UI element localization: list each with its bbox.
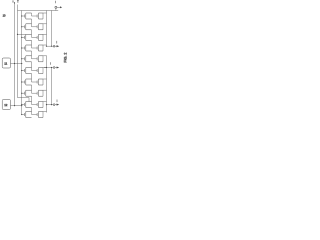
node output junction 16	[44, 67, 53, 69]
wire interstage row 10	[32, 112, 38, 115]
transistor Q5a	[24, 56, 31, 62]
wire chain link rows 8-9	[31, 96, 33, 101]
node gate stub row 1	[22, 15, 25, 17]
transistor Q2a	[24, 24, 31, 30]
output arrow 16	[55, 67, 57, 69]
wire chain link rows 4-5	[31, 51, 33, 56]
wire block 12 output	[11, 105, 22, 107]
wire interstage row 7	[32, 79, 38, 82]
svg-text:FIG. 2: FIG. 2	[63, 53, 67, 63]
wire chain link rows 9-10	[31, 108, 33, 112]
transistor Q3a	[24, 34, 31, 40]
transistor Q3b	[37, 34, 43, 40]
wire chain link rows 5-6	[31, 62, 33, 68]
wire chain link rows 1-2	[31, 19, 33, 24]
node gate stub row 8	[22, 92, 25, 94]
gate bus (third vertical bus)	[21, 11, 23, 115]
wire interstage row 3	[32, 34, 38, 37]
wire interstage row 9	[32, 102, 38, 105]
wire interstage row 6	[32, 68, 38, 71]
drain collector line (upper segment)	[46, 11, 48, 47]
transistor Q1a	[24, 13, 31, 19]
transistor Q4a	[24, 45, 31, 51]
node gate stub row 9	[22, 104, 25, 106]
drain collector line (lower segment)	[46, 56, 48, 113]
input terminal 13 (top right)	[55, 8, 57, 10]
label 2	[17, 0, 19, 2]
terminal circle 17	[53, 104, 55, 106]
svg-text:12: 12	[4, 103, 8, 107]
label 1	[12, 0, 14, 2]
label 13	[55, 1, 57, 4]
wire interstage row 2	[32, 24, 38, 27]
svg-text:10: 10	[3, 13, 6, 17]
wire output link row 5	[43, 56, 47, 62]
node gate stub row 10	[22, 114, 25, 116]
transistor Q2b	[37, 24, 43, 30]
wire chain link rows 6-7	[31, 74, 33, 80]
transistor Q5b	[37, 56, 43, 62]
generator block 11	[2, 58, 10, 68]
transistor Q10a	[24, 112, 31, 118]
transistor Q1b	[37, 13, 43, 19]
svg-text:11: 11	[4, 62, 7, 66]
transistor Q9a	[24, 102, 31, 108]
wire output link row 8	[43, 90, 47, 96]
clock line phi-2 (second vertical bus)	[17, 5, 19, 98]
transistor Q9b	[37, 102, 43, 108]
node output junction 17	[47, 104, 54, 106]
wire phi-2 bus bottom jog to row 9	[18, 98, 30, 102]
wire output link row 7	[43, 79, 47, 85]
wire chain link rows 2-3	[31, 30, 33, 35]
output arrow 17	[55, 104, 57, 106]
node gate stub row 3	[22, 36, 25, 38]
label 17	[56, 100, 58, 103]
wire output link row 4	[43, 45, 47, 51]
wire output link row 3	[43, 34, 47, 40]
node output junction 15	[47, 45, 54, 47]
node gate stub row 6	[22, 70, 25, 72]
label 15	[56, 41, 58, 44]
wire chain link rows 3-4	[31, 40, 33, 45]
transistor Q8b	[37, 90, 43, 96]
transistor Q4b	[37, 45, 43, 51]
terminal circle 16	[53, 67, 55, 69]
generator block 12	[2, 100, 10, 110]
transistor Q6b	[37, 68, 43, 74]
transistor Q7a	[24, 79, 31, 85]
node gate stub row 5	[22, 58, 25, 60]
label 16	[49, 62, 51, 65]
wire interstage row 8	[32, 90, 38, 93]
wire row 3 drain to phi-2 bus	[18, 33, 26, 35]
wire chain link rows 7-8	[31, 85, 33, 90]
node gate stub row 4	[22, 47, 25, 49]
wire interstage row 1	[32, 13, 38, 16]
transistor Q7b	[37, 79, 43, 85]
wire output link row 6	[43, 68, 47, 74]
transistor Q10b	[37, 112, 43, 118]
terminal circle 15	[53, 45, 55, 47]
wire interstage row 5	[32, 56, 38, 59]
transistor Q8a	[24, 90, 31, 96]
output arrow 15	[55, 45, 57, 47]
output feeder line (upper segment)	[51, 11, 53, 47]
node gate stub row 2	[22, 26, 25, 28]
node gate stub row 7	[22, 81, 25, 83]
wire interstage row 4	[32, 45, 38, 48]
wire output link row 10	[43, 112, 47, 118]
output feeder line (lower segment)	[51, 68, 53, 105]
wire block 11 output	[11, 63, 22, 65]
wire output link row 1	[43, 13, 47, 19]
transistor Q6a	[24, 68, 31, 74]
wire output link row 2	[43, 24, 47, 30]
wire top horizontal bus	[18, 10, 59, 12]
clock line phi-1 (left vertical bus)	[14, 3, 16, 106]
wire output link row 9	[43, 102, 47, 108]
